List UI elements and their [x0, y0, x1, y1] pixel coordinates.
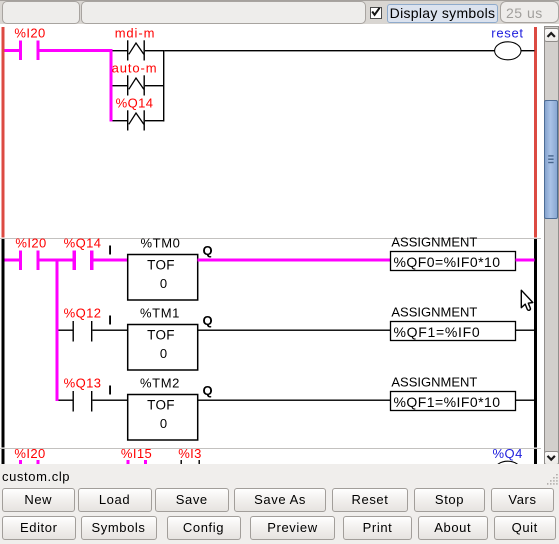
wire: assignment 3 to right rail	[516, 400, 535, 401]
timer block %TM1 TOF	[128, 325, 198, 371]
branch vertical wire left (energized)	[110, 49, 113, 122]
svg-text:%I20: %I20	[14, 26, 45, 41]
rung 1 right power rail	[534, 27, 537, 238]
svg-text:TOF: TOF	[147, 258, 175, 273]
svg-text:TOF: TOF	[147, 398, 175, 413]
wire: %Q14 to merge vertical	[145, 120, 163, 121]
svg-text:ASSIGNMENT: ASSIGNMENT	[391, 305, 477, 320]
mouse cursor	[514, 284, 540, 316]
svg-text:I: I	[108, 383, 112, 398]
svg-text:%TM1: %TM1	[140, 306, 180, 321]
wire: TM2 Q output to assignment 3	[198, 400, 391, 401]
svg-text:mdi-m: mdi-m	[115, 26, 156, 41]
contact %I20 rung2 (open, energized)	[19, 251, 22, 271]
svg-text:%Q14: %Q14	[116, 96, 154, 111]
svg-text:%QF1=%IF0: %QF1=%IF0	[394, 324, 481, 340]
rung separator 2	[0, 448, 541, 449]
svg-text:ASSIGNMENT: ASSIGNMENT	[391, 235, 477, 250]
svg-text:Q: Q	[202, 243, 212, 258]
contact auto-m (rising edge)	[127, 75, 128, 95]
toggle button Display symbols	[387, 4, 498, 23]
rung 3 left power rail	[2, 449, 5, 465]
contact %I20 (open, energized)	[19, 41, 22, 61]
svg-text:0: 0	[160, 346, 167, 361]
svg-text:%TM0: %TM0	[141, 236, 181, 251]
svg-text:%I15: %I15	[121, 446, 152, 461]
svg-text:%TM2: %TM2	[140, 376, 180, 391]
bottom panel	[0, 464, 559, 544]
coil %Q4 (clipped)	[495, 461, 521, 480]
svg-text:%I20: %I20	[14, 446, 45, 461]
svg-text:%QF0=%IF0*10: %QF0=%IF0*10	[394, 254, 501, 270]
wire: rail to contact %I20 rung2 (energized)	[5, 259, 20, 262]
svg-text:%Q14: %Q14	[64, 236, 102, 251]
wire: %I20 to %Q14 rung2 (energized)	[40, 259, 73, 262]
contact mdi-m (rising edge)	[127, 40, 128, 60]
timer block %TM2 TOF	[128, 395, 198, 441]
contact %Q14 rung2 (open, energized)	[73, 251, 76, 271]
svg-text:0: 0	[160, 276, 167, 291]
rung separator 1	[0, 238, 541, 239]
svg-text:0: 0	[160, 416, 167, 431]
contact %Q13 (open)	[73, 391, 74, 412]
checkbox Display symbols	[370, 7, 382, 19]
svg-text:reset: reset	[491, 26, 523, 41]
svg-text:%Q4: %Q4	[492, 446, 522, 461]
wire: %Q13 to timer TM2	[93, 400, 128, 401]
wire stub to contact mdi-m	[113, 50, 128, 51]
contact %I20 rung3 (energized, clipped)	[19, 460, 22, 465]
wire: assignment 1 to right rail (energized)	[516, 259, 535, 262]
svg-text:ASSIGNMENT: ASSIGNMENT	[391, 375, 477, 390]
svg-text:Q: Q	[202, 313, 212, 328]
wire: coil reset to right rail	[521, 50, 535, 51]
svg-text:TOF: TOF	[147, 328, 175, 343]
scrollbar	[544, 26, 559, 466]
wire: rail to contact %I20 (energized)	[5, 49, 20, 52]
wire: auto-m to merge vertical	[145, 85, 163, 86]
toolbar	[0, 0, 559, 24]
svg-text:%I3: %I3	[178, 446, 202, 461]
svg-text:%Q13: %Q13	[64, 376, 102, 391]
wire: %Q14 to timer TM0 (energized)	[94, 259, 128, 262]
svg-text:I: I	[108, 243, 112, 258]
timer block %TM0 TOF	[128, 255, 198, 301]
rung 2 right power rail	[534, 239, 537, 448]
wire: branch to contact %Q13	[59, 400, 73, 401]
svg-text:I: I	[108, 313, 112, 328]
svg-text:auto-m: auto-m	[112, 61, 158, 76]
coil reset	[495, 42, 521, 60]
wire: assignment 2 to right rail	[516, 330, 535, 331]
svg-text:%I20: %I20	[15, 236, 46, 251]
svg-text:Q: Q	[202, 383, 212, 398]
rung 1 left power rail	[2, 27, 5, 238]
branch vertical wire rung2 (energized)	[56, 259, 59, 401]
rung 3 right power rail	[534, 449, 537, 465]
contact %I15 (energized, clipped)	[127, 460, 130, 465]
entry scan time	[500, 1, 559, 23]
wire: merge to coil reset	[165, 50, 495, 51]
wire: mdi-m to merge vertical	[145, 50, 163, 51]
wire: %I20 to branch junction (energized)	[40, 49, 112, 52]
wire stub to contact %Q14 rung1	[113, 120, 128, 121]
svg-text:%QF1=%IF0*10: %QF1=%IF0*10	[394, 394, 501, 410]
contact %Q12 (open)	[73, 321, 74, 342]
wire: branch to contact %Q12	[59, 330, 73, 331]
wire: TM1 Q output to assignment 2	[198, 330, 391, 331]
contact %Q14 rung1 (rising edge)	[127, 110, 128, 130]
svg-text:%Q12: %Q12	[64, 306, 102, 321]
contact %I3 (clipped)	[181, 460, 182, 465]
wire: %Q12 to timer TM1	[93, 330, 128, 331]
rung 2 left power rail	[2, 239, 5, 448]
wire: TM0 Q output to assignment (energized)	[198, 259, 391, 262]
branch merge vertical wire right	[163, 50, 164, 122]
wire stub to contact auto-m	[113, 85, 128, 86]
